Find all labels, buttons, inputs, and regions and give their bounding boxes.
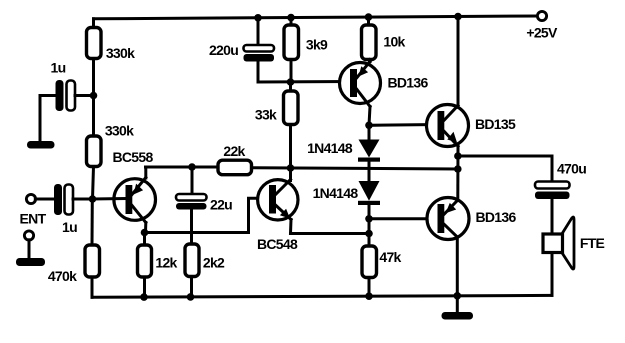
resistor 2k2 <box>185 244 199 277</box>
svg-text:BC548: BC548 <box>257 236 298 252</box>
wire to Q5 base <box>369 217 437 220</box>
svg-text:1u: 1u <box>62 219 77 235</box>
wire 10k to Q3 emitter <box>368 60 372 63</box>
transistor Q5 emitter lead <box>444 200 458 214</box>
transistor Q5 BD136 body <box>427 198 469 240</box>
resistor 10k <box>362 25 377 60</box>
svg-text:FTE: FTE <box>580 235 605 251</box>
capacitor 22u solid plate <box>176 203 207 210</box>
wire R2 to input node <box>93 167 94 200</box>
wire 1u input to input node <box>73 198 93 201</box>
wire input node to Q1 base <box>93 197 126 201</box>
resistor 330k R1 <box>87 28 102 59</box>
wire 10k rail stub <box>367 17 370 25</box>
svg-text:330k: 330k <box>105 123 134 139</box>
transistor Q1 BC558 body <box>114 179 156 221</box>
svg-text:BD136: BD136 <box>475 209 516 225</box>
wire 220u bottom to bias node <box>258 62 350 83</box>
wire 47k to ground rail <box>368 278 371 297</box>
wire Q1 collector down <box>144 223 147 233</box>
node Q1 collector <box>141 229 149 237</box>
transistor Q2 BC548 body <box>258 180 298 220</box>
wire bottom ground rail <box>92 295 552 297</box>
node 2k2 on rail <box>187 293 195 301</box>
node output to speaker <box>454 152 462 160</box>
node feedback at 33k <box>287 164 295 172</box>
wire ground stub <box>456 296 459 312</box>
svg-text:BC558: BC558 <box>112 149 153 165</box>
node bias divider <box>90 92 98 100</box>
svg-text:47k: 47k <box>379 249 401 265</box>
node input <box>89 195 97 203</box>
wire 33k stub top <box>289 82 292 91</box>
transistor Q2 base bar <box>269 185 276 214</box>
ground top-left <box>27 141 55 149</box>
transistor Q3 base bar <box>350 69 357 97</box>
terminal ENT upper <box>26 194 35 203</box>
transistor Q4 base bar <box>438 111 445 140</box>
wire 220u rail drop <box>257 18 260 45</box>
wire Q4 base <box>369 123 438 127</box>
svg-text:BD136: BD136 <box>387 75 428 91</box>
ground output <box>442 312 474 320</box>
wire Q2 emitter to 47k node <box>291 232 370 235</box>
wire Q4 collector to rail <box>457 17 460 106</box>
wire 470u to speaker <box>551 199 554 234</box>
wire D2 to 47k <box>368 205 371 246</box>
transistor Q1 emitter arrow <box>134 184 144 195</box>
wire speaker to ground rail <box>551 253 554 296</box>
capacitor 22u hollow plate <box>176 194 207 201</box>
capacitor 1u input hollow plate <box>65 185 74 215</box>
wire input node to 470k <box>91 199 94 245</box>
terminal ENT lower <box>24 231 33 240</box>
node 3k9 bottom <box>287 78 295 86</box>
svg-text:22u: 22u <box>210 197 232 213</box>
wire 1u top to divider node <box>75 94 94 97</box>
resistor 33k <box>284 91 299 125</box>
wire 33k to Q2 collector <box>289 125 292 181</box>
node driver output <box>365 122 373 130</box>
wire Q1 collector to Q2 base <box>145 198 270 232</box>
wire 1u top left to ground <box>40 96 56 142</box>
wire feedback 22k to output <box>252 168 458 169</box>
node Q5 base <box>365 215 373 223</box>
node BD135 collector on rail <box>454 13 462 21</box>
capacitor 220u hollow plate <box>244 45 275 52</box>
svg-text:ENT: ENT <box>20 211 47 227</box>
svg-text:33k: 33k <box>255 107 277 123</box>
wire Q5 collector to ground rail <box>456 237 459 297</box>
wire 22u node down <box>191 167 194 194</box>
wire 22u to 2k2 <box>190 210 193 245</box>
transistor Q3 emitter lead <box>357 62 370 78</box>
transistor Q1 base bar <box>126 185 133 214</box>
resistor 47k <box>362 246 377 278</box>
wire Q2 emitter down <box>289 220 293 234</box>
resistor 12k <box>138 245 152 277</box>
ground ENT <box>16 258 45 266</box>
node Q2 emitter / 47k <box>365 230 373 238</box>
svg-text:22k: 22k <box>223 143 245 159</box>
wire rail to R1 <box>92 19 95 28</box>
transistor Q4 collector lead <box>444 106 458 121</box>
wire output to 470u <box>458 156 552 182</box>
speaker FTE box <box>543 234 563 253</box>
terminal +25V <box>537 11 546 20</box>
wire 3k9 to node <box>290 60 293 83</box>
capacitor 1u top hollow plate <box>67 81 76 111</box>
svg-text:1N4148: 1N4148 <box>307 140 353 156</box>
wire node to diode D1 <box>368 125 371 140</box>
svg-text:12k: 12k <box>155 255 177 271</box>
node 22u top <box>188 163 196 171</box>
svg-text:+25V: +25V <box>526 25 558 41</box>
wire Q1 emitter up <box>144 167 147 178</box>
node Q5 collector on rail <box>454 292 462 300</box>
wire ENT to 1u input <box>35 198 54 201</box>
node 3k9 top on rail <box>287 14 295 22</box>
wire D1 to D2 <box>368 162 371 182</box>
transistor Q4 emitter arrow <box>447 132 457 143</box>
svg-text:BD135: BD135 <box>475 116 516 132</box>
wire 3k9 rail stub <box>290 18 293 25</box>
diode D1 1N4148 <box>359 140 380 158</box>
diode D1 cathode bar <box>358 158 380 162</box>
transistor Q4 emitter lead <box>444 132 458 147</box>
node 12k on rail <box>140 293 148 301</box>
wire 2k2 to ground rail <box>190 277 193 297</box>
transistor Q2 emitter arrow <box>280 209 290 219</box>
wire 12k to ground rail <box>143 277 146 297</box>
transistor Q2 collector lead <box>276 180 291 195</box>
transistor Q3 BD136 body <box>340 63 381 104</box>
wire R1 to R2 <box>92 59 95 137</box>
node 220u top on rail <box>254 14 262 22</box>
capacitor 470u solid plate <box>535 192 570 200</box>
wire Q1 emitter to 22k <box>146 166 219 169</box>
transistor Q1 collector lead <box>132 206 146 223</box>
node 10k top on rail <box>365 13 373 21</box>
wire 12k stub <box>143 233 146 246</box>
capacitor 1u input solid plate <box>54 184 62 215</box>
svg-text:1N4148: 1N4148 <box>313 185 359 201</box>
transistor Q4 BD135 body <box>427 105 469 147</box>
wire Q3 collector down <box>369 107 370 126</box>
wire top supply rail <box>94 16 538 19</box>
transistor Q5 base bar <box>438 204 445 233</box>
transistor Q3 collector lead <box>357 90 370 107</box>
wire ENT lower to ground <box>28 240 31 258</box>
diode D2 1N4148 <box>359 181 380 201</box>
node 47k on rail <box>365 292 373 300</box>
transistor Q5 collector lead <box>444 225 457 238</box>
capacitor 1u top solid plate <box>56 80 64 111</box>
resistor 330k R2 <box>87 136 102 167</box>
svg-text:3k9: 3k9 <box>306 37 328 53</box>
svg-text:1u: 1u <box>51 60 66 76</box>
svg-text:2k2: 2k2 <box>203 255 225 271</box>
speaker FTE horn <box>562 217 574 269</box>
svg-text:330k: 330k <box>106 45 135 61</box>
capacitor 220u solid plate <box>244 54 275 62</box>
diode D2 cathode bar <box>358 201 380 205</box>
svg-text:470u: 470u <box>557 161 586 177</box>
node feedback takeoff <box>454 165 462 173</box>
svg-text:10k: 10k <box>383 34 405 50</box>
svg-text:220u: 220u <box>209 42 238 58</box>
resistor 470k <box>85 245 100 277</box>
resistor 3k9 <box>284 25 299 60</box>
wire 470k to ground rail <box>91 277 94 297</box>
capacitor 470u hollow plate <box>535 182 570 189</box>
transistor Q1 emitter lead <box>132 178 146 195</box>
resistor 22k <box>218 160 252 175</box>
transistor Q2 emitter lead <box>276 206 291 220</box>
transistor Q5 emitter arrow <box>446 203 457 213</box>
transistor Q3 emitter arrow <box>359 66 369 76</box>
wire output column <box>456 146 459 200</box>
svg-text:470k: 470k <box>48 268 77 284</box>
